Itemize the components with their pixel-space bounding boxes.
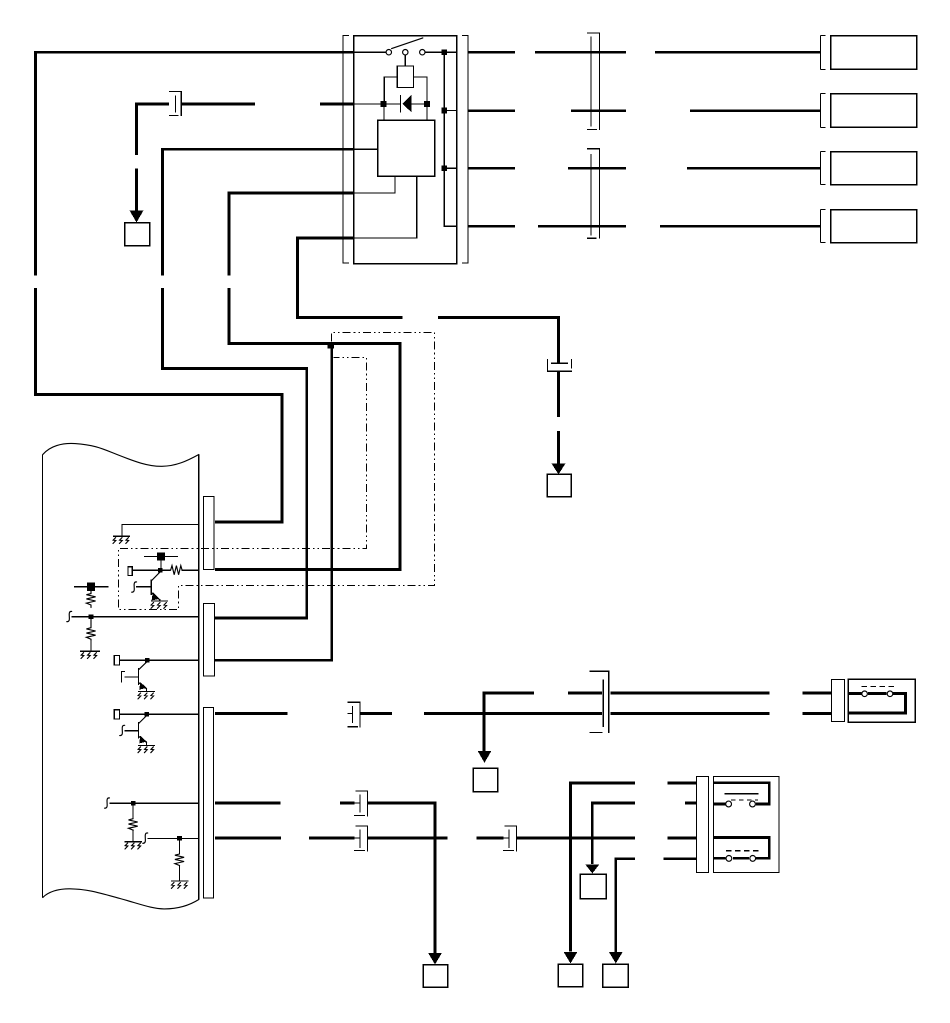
wire node4 to resistor <box>132 806 134 819</box>
SW2 top contact path <box>713 783 769 804</box>
diode row wire left <box>354 103 401 105</box>
wire S1 to base node <box>160 561 162 569</box>
wire b6 (y858.8) with drop to box C <box>616 859 696 952</box>
wire m1 mid segments <box>360 712 832 715</box>
wire m2 (y693) with drop to box <box>484 693 831 751</box>
ECU torn bottom edge <box>43 889 199 909</box>
arrowhead (x616) <box>609 952 623 964</box>
inline connector b1 (x355) <box>354 791 367 816</box>
wire input5 y838 <box>148 837 199 839</box>
SW1 contact path <box>848 694 906 714</box>
switch SW2 box <box>714 777 780 873</box>
relay coil box <box>397 66 413 87</box>
resistor RV3 (vertical) <box>129 819 138 830</box>
bus junction square row3 <box>441 165 447 171</box>
terminal box C (x616) <box>603 964 629 987</box>
diode cathode bar <box>400 95 402 113</box>
diode triangle <box>402 95 411 113</box>
resistor RH1 (horizontal) <box>171 566 182 575</box>
resistor RV4 (vertical) <box>175 854 184 866</box>
wire RV4 to ground <box>179 866 181 881</box>
SW1 contact circle B <box>887 691 893 697</box>
relay outer box <box>354 36 457 264</box>
squiggle mark input4 <box>105 798 110 808</box>
ground trace y524 <box>122 525 199 537</box>
transistor Q3 <box>124 716 147 744</box>
ground G1 <box>113 536 130 543</box>
wire row2 right <box>468 109 820 112</box>
SW2 bottom linkage dashes <box>726 850 759 852</box>
switch SW2 connector rect <box>697 777 709 873</box>
arrow wire to box (x136) <box>135 169 138 212</box>
bracket for box4 <box>821 210 826 243</box>
ground G2 <box>151 601 168 608</box>
arrowhead (x592) <box>585 865 599 874</box>
ground G3 <box>80 651 100 658</box>
wire resistor to ECU edge <box>181 569 198 571</box>
wire relay y238 to connector and box (via x297.5) <box>298 238 559 363</box>
wire rect to resistor <box>132 569 170 571</box>
ground G4 <box>138 692 155 699</box>
arrowhead (x435) <box>428 953 442 965</box>
inline connector m1 (x348) <box>348 702 360 727</box>
node junction divider <box>89 614 94 619</box>
terminal box B (x570) <box>558 964 583 987</box>
ECU right edge <box>198 455 200 900</box>
ground G6 <box>125 842 143 849</box>
inline connector at x169 <box>169 92 181 117</box>
SW2 top contact bar <box>724 793 758 795</box>
ECU left edge <box>42 455 44 898</box>
emitter wire Q1 <box>159 599 161 601</box>
SW2 bottom contact path <box>713 838 769 859</box>
splice square S2 with bar <box>74 583 109 591</box>
base squiggle mark Q1 <box>132 582 137 592</box>
wire RV2 to ground <box>90 641 92 652</box>
arrowhead (x570) <box>564 952 578 964</box>
node junction Q2 <box>145 658 150 663</box>
wire m1 (y713.5) from ECU <box>215 712 288 715</box>
relay pin leg y238 <box>354 176 417 238</box>
shield drain wire (x331.8) <box>215 345 332 660</box>
wire b4 (y783) with drop to box B <box>571 783 697 952</box>
terminal rect R2in <box>114 656 119 665</box>
squiggle mark input5 <box>143 833 148 843</box>
relay internal wire row y149 <box>354 148 378 150</box>
wire b5 (y803 right) with drop to box D <box>592 803 696 864</box>
bracket for box2 <box>821 94 826 128</box>
diode legs down to main block <box>384 107 427 120</box>
wire RV3 to ground <box>132 830 134 842</box>
wire battery feed row1 <box>36 52 354 522</box>
arrowhead (x558) <box>552 464 566 475</box>
bracket for box3 <box>821 152 826 185</box>
bus stub row3 <box>447 167 457 169</box>
coil right leg <box>414 77 428 101</box>
wire rect2 to ECU edge <box>120 659 199 661</box>
ECU connector block2 <box>204 604 215 677</box>
switch SW1 box <box>848 679 915 722</box>
base mark Q2 <box>122 672 125 683</box>
diode row wire right <box>412 103 430 105</box>
wire row1 inside relay <box>354 51 387 53</box>
divider output wire y617 <box>71 616 199 618</box>
connector bracket right of relay box <box>462 35 468 264</box>
terminal box D (x592) <box>580 874 606 899</box>
ECU connector block3 <box>204 708 214 899</box>
wire with connector to small box (x136) <box>137 104 354 155</box>
SW2 bottom contact circle B <box>750 856 756 862</box>
resistor RV2 (vertical) <box>86 619 95 641</box>
switch contact circle 1 <box>386 50 391 55</box>
connector box3 <box>831 152 917 185</box>
bus junction square row2 <box>441 108 447 114</box>
shield junction square <box>328 342 334 348</box>
big inline connector (x589-609) <box>589 671 609 733</box>
wire b2 right <box>516 837 696 840</box>
vertical inline connector (x558) <box>548 359 572 372</box>
terminal box (x484) <box>473 768 498 792</box>
diode junction square left <box>381 101 387 107</box>
SW1 linkage dashes <box>862 686 896 688</box>
SW1 contact circle A <box>862 691 868 697</box>
terminal box (x136) <box>125 223 150 246</box>
inline connector b3 (x504) <box>503 826 516 851</box>
wire rect3 to ECU edge <box>120 713 199 715</box>
wire b1 to drop (x435) <box>368 803 436 953</box>
emitter wire Q3 <box>146 742 148 746</box>
arrow wire below connector <box>557 372 560 464</box>
bus stub row2 <box>447 110 457 112</box>
ground G7 <box>171 881 189 888</box>
resistor RV1 (vertical) <box>86 591 95 608</box>
transistor Q2 <box>124 662 147 690</box>
wire row4 right <box>468 225 820 228</box>
squiggle mark divider <box>67 611 72 621</box>
switch contact circle 2 <box>403 50 408 55</box>
relay pin leg y193 <box>354 176 396 193</box>
inline connector lower (rows 3-4) <box>587 149 600 239</box>
wire relay y193 to ECU (via x229,x400) <box>215 193 400 570</box>
wire relay y149 to ECU (via x162.5,x306.8) <box>163 149 354 618</box>
node junction Q3 <box>144 712 149 717</box>
emitter wire Q2 <box>146 688 148 691</box>
SW2 bottom contact circle A <box>726 856 732 862</box>
diode junction square right <box>424 101 430 107</box>
terminal rect R3in <box>114 710 119 719</box>
relay main block <box>378 120 435 176</box>
SW2 top contact circle B <box>750 801 756 807</box>
wire input4 y803 <box>109 802 198 804</box>
wire b2 (y838) from ECU <box>215 837 355 840</box>
switch contact circle 3 <box>420 50 425 55</box>
wire b2 mid <box>368 837 504 840</box>
switch lever <box>392 38 423 49</box>
connector box4 <box>831 210 917 243</box>
wire row3 right <box>468 167 820 170</box>
ground G5 <box>138 745 155 752</box>
splice square S1 with bar <box>144 552 178 560</box>
terminal box A (x435) <box>423 965 448 988</box>
terminal box (x558) <box>547 474 571 497</box>
wire b1 (y803) from ECU <box>215 802 355 805</box>
arrowhead (x136) <box>130 211 144 223</box>
relay bus vertical <box>444 52 457 226</box>
connector box1 <box>831 36 917 70</box>
chain dash-dot outline <box>119 333 435 610</box>
wire node5 to resistor <box>179 841 181 854</box>
wire circle3 to bus junction <box>425 51 457 53</box>
base squiggle mark Q3 <box>120 725 125 735</box>
node junction input5 <box>177 836 182 841</box>
node junction input4 <box>131 801 136 806</box>
arrowhead (x484) <box>478 751 492 763</box>
terminal rect R1in <box>128 567 132 576</box>
wire row1 right <box>468 51 820 54</box>
inline connector upper (rows 1-2) <box>587 33 600 130</box>
ECU connector block1 <box>204 497 215 570</box>
SW2 top contact circle A <box>726 801 732 807</box>
switch SW1 connector rect <box>832 680 845 722</box>
inline connector b2 (x355) <box>354 826 367 851</box>
ECU torn top edge <box>43 443 199 466</box>
connector bracket left of relay box <box>343 35 349 264</box>
junction square row1 <box>441 49 447 55</box>
coil left leg <box>384 77 397 101</box>
relay coil drop wire <box>404 55 406 66</box>
node junction Q1 <box>158 568 163 573</box>
connector box2 <box>831 94 917 128</box>
SW2 top linkage dashes <box>731 799 758 801</box>
bracket for box1 <box>821 36 826 70</box>
transistor Q1 <box>136 572 160 601</box>
